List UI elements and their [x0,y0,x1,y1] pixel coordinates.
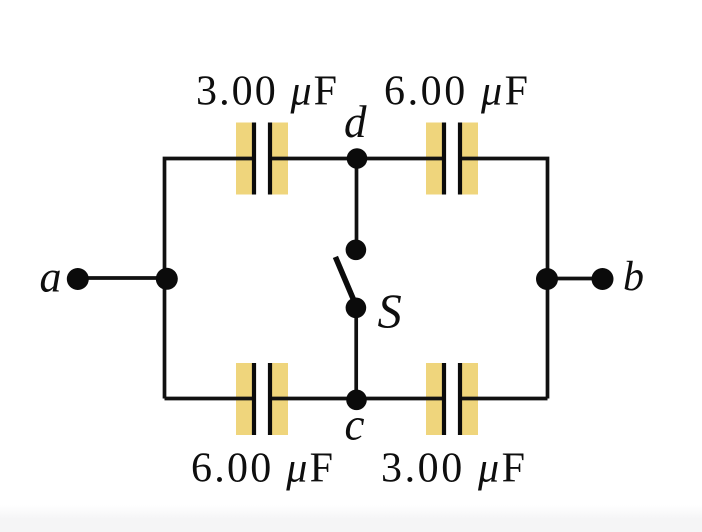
terminal a dot [67,268,89,290]
terminal b dot [592,268,614,290]
capacitor C1 plates [252,123,272,195]
svg-text:c: c [345,400,365,450]
node c dot [346,390,367,411]
capacitor C3 plates [252,363,272,435]
junction dot right [536,268,558,290]
capacitor C4 3.00uF dielectric bands (bottom-right) [426,363,478,435]
svg-text:S: S [378,286,402,339]
junction dot left [156,268,178,290]
node d dot [347,148,368,169]
wire terminal a lead [78,276,167,280]
svg-text:b: b [623,254,644,300]
switch S lower contact dot [346,298,367,319]
svg-text:a: a [40,253,62,302]
capacitor C2 plates [442,123,462,195]
capacitor C2 6.00uF dielectric bands (top-right) [426,123,478,195]
wire bottom left segment [165,397,256,401]
svg-text:d: d [344,97,367,147]
capacitor C3 6.00uF dielectric bands (bottom-left) [236,363,288,435]
wire top right segment (C2 to b-side) [459,159,548,399]
switch S upper contact dot [346,240,367,261]
wire bottom middle segment (C3 to C4 through node c) [269,397,445,401]
wire node d to switch [355,159,359,251]
wire terminal b lead [547,277,603,281]
switch S arm [337,260,356,305]
capacitor C1 3.00uF dielectric bands (top-left) [236,123,288,195]
wire top left segment (a-side to C1) [165,159,256,399]
wire switch to node c [354,308,358,400]
wire bottom right segment [459,397,548,401]
wire top middle segment (C1 to C2 through node d) [269,157,445,161]
capacitor C4 plates [442,363,462,435]
